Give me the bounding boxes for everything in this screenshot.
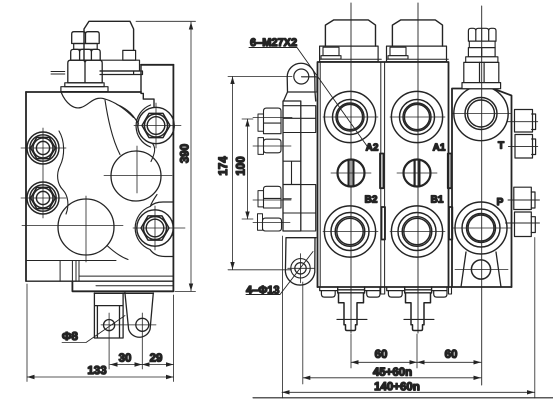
- hex nut A (top): [72, 32, 100, 44]
- svg-text:A2: A2: [366, 142, 379, 153]
- second S-curve: [117, 105, 139, 125]
- boss2 upper-left hex boss: [27, 132, 59, 164]
- bracket bottom lug counterbore: [291, 259, 310, 278]
- svg-text:30: 30: [119, 352, 132, 364]
- bracket bottom lug hole: [295, 263, 306, 274]
- body right edge: [172, 65, 174, 291]
- side lines left of nut stack: [51, 72, 65, 75]
- circle A neck curves: [105, 100, 155, 162]
- bracket bolt 2: [264, 139, 282, 153]
- circle B tail curve: [107, 246, 128, 260]
- body top edge: [26, 91, 141, 93]
- end section outline: [452, 89, 512, 288]
- dim 140+60n extensions: [283, 236, 535, 398]
- body hump scallop: [61, 92, 104, 108]
- dim 174 extensions: [228, 77, 292, 270]
- section1 gasket strip: [338, 287, 365, 293]
- dim 390 line: [189, 22, 193, 291]
- bracket rail: [283, 101, 301, 231]
- right plug upper block2: [515, 135, 533, 159]
- bracket top lug hole: [294, 69, 309, 84]
- cap base plates: [320, 58, 448, 60]
- boss A1 centerline: [390, 116, 445, 118]
- plug lower tips: [531, 192, 535, 233]
- svg-text:P: P: [497, 197, 504, 208]
- bracket middle box: [283, 161, 301, 199]
- boss B1 centerline: [390, 231, 445, 233]
- circle B centerlines: [22, 196, 123, 262]
- cap flange: [100, 60, 140, 71]
- section divider: [381, 62, 385, 287]
- boss A2: [324, 91, 375, 142]
- body outline sections 1-2: [318, 62, 449, 287]
- boss B1: [391, 206, 442, 257]
- divider slot lower: [382, 207, 386, 240]
- spool bore circle B: [58, 199, 114, 255]
- dim 45+60n line: [303, 376, 481, 380]
- rear block left edge with steps: [141, 65, 154, 107]
- boss T: [454, 86, 508, 140]
- bolt3 centerline: [253, 199, 291, 201]
- left foot hole: [104, 320, 115, 331]
- cap side box: [123, 50, 136, 60]
- boss B2 centerline: [323, 231, 378, 233]
- svg-text:T: T: [498, 140, 504, 151]
- joint2 base strip: [449, 287, 452, 294]
- joint2 slot lower: [449, 207, 452, 240]
- top cap: [84, 21, 134, 60]
- bracket bolt 4: [263, 218, 282, 231]
- dim 60 first line: [351, 360, 417, 364]
- boss T centerline: [453, 113, 511, 115]
- section centerline 1: [350, 3, 352, 333]
- pilot circle2 centerline: [397, 172, 437, 174]
- right plug lower block2: [515, 212, 532, 237]
- svg-text:A1: A1: [433, 142, 446, 153]
- boss4 casting arc: [135, 202, 173, 257]
- relief base plate: [462, 83, 501, 89]
- circle A centerlines: [104, 146, 172, 193]
- dim 100 line: [245, 119, 249, 219]
- svg-text:45+60n: 45+60n: [373, 367, 412, 379]
- bolt4 centerline: [253, 221, 290, 223]
- boss1 centerlines: [134, 103, 181, 148]
- relief neck washer: [469, 41, 495, 47]
- tongue hole: [471, 260, 490, 279]
- cap lower plate: [100, 71, 143, 75]
- boss1 casting arc: [136, 105, 150, 147]
- end section centerline over stack: [481, 28, 483, 88]
- svg-text:140+60n: 140+60n: [374, 381, 420, 393]
- right plug upper block1: [515, 110, 533, 133]
- relief body block: [464, 62, 499, 82]
- svg-text:390: 390: [180, 144, 192, 163]
- svg-text:174: 174: [218, 156, 230, 176]
- section2 stem cross: [404, 318, 434, 320]
- boss P: [455, 202, 507, 254]
- left foot: [94, 293, 123, 338]
- body internal shelf: [26, 261, 173, 282]
- feet hole centerline: [101, 313, 156, 369]
- dim 60 extensions: [351, 334, 417, 368]
- relief valve hex nut top: [468, 28, 496, 41]
- dim 174 line: [230, 77, 234, 270]
- body bottom-left step: [26, 280, 173, 282]
- note Phi8 leader: [62, 316, 125, 343]
- nut washer: [65, 83, 104, 87]
- right plug lower block1: [514, 187, 532, 209]
- section1 base left block: [320, 287, 337, 297]
- boss3 centerline: [21, 197, 66, 199]
- boss B2: [324, 206, 375, 257]
- dim 390 extension top: [136, 20, 196, 22]
- section2 gasket strip: [405, 287, 432, 293]
- bracket bolt 1: [264, 108, 282, 134]
- boss4 centerlines: [133, 206, 185, 250]
- tongue hole centerline: [455, 269, 508, 271]
- body bottom line: [72, 281, 173, 291]
- end section centerline: [481, 6, 483, 385]
- spool bore circle A: [111, 151, 161, 201]
- pilot circle section1: [338, 160, 365, 187]
- nut base flange: [61, 87, 108, 92]
- section1 stem: [339, 293, 364, 331]
- bolt2 washer: [258, 138, 264, 155]
- bolt1 washer: [258, 114, 264, 131]
- joint2 slot upper: [448, 154, 452, 189]
- body inner bottom line: [96, 285, 173, 287]
- section2 base right block: [432, 287, 447, 297]
- body left edge inner line: [319, 62, 321, 287]
- svg-text:Φ8: Φ8: [62, 331, 78, 343]
- boss3 lower-left hex boss: [27, 182, 59, 214]
- end section bottom tongue: [461, 252, 501, 287]
- bracket upper block: [283, 106, 316, 133]
- dim 133 line: [27, 375, 174, 379]
- boss A2 centerline: [323, 116, 378, 118]
- top lug side box: [302, 77, 317, 92]
- bottom lug centerlines: [288, 254, 315, 283]
- dim 60 second line: [417, 360, 481, 364]
- dim 390 extension bottom: [175, 291, 196, 293]
- cap1 small boss: [323, 47, 339, 56]
- svg-text:133: 133: [87, 365, 106, 377]
- plug upper tips: [532, 114, 536, 155]
- cap2 step box: [387, 46, 447, 62]
- divider slot upper: [380, 154, 383, 189]
- nut A neck: [74, 44, 98, 50]
- svg-text:60: 60: [375, 349, 388, 361]
- bracket top lug: [284, 63, 316, 101]
- note 6-M27X2 underline+leader: [249, 48, 367, 147]
- section1 stem cross: [337, 318, 367, 320]
- dim 140+60n line: [282, 390, 535, 394]
- bolt2 centerline: [253, 145, 291, 147]
- section2 base left block: [387, 287, 404, 297]
- cap2 small boss step: [388, 56, 408, 59]
- section centerline 2: [417, 3, 419, 333]
- svg-text:B1: B1: [431, 194, 444, 205]
- hex nut B: [71, 49, 101, 60]
- pilot circle1 centerline: [331, 172, 371, 174]
- section2 stem: [406, 293, 431, 331]
- boss A1: [391, 91, 442, 142]
- hump S-curve to boss1: [104, 99, 134, 118]
- cap1 small boss step: [321, 56, 341, 59]
- plug upper centerlines: [507, 122, 538, 147]
- left wavy casting line: [58, 131, 68, 214]
- cap section1: [325, 20, 375, 46]
- bracket bottom lug: [285, 238, 316, 285]
- body bottom edge: [318, 286, 512, 288]
- boss P centerline: [453, 227, 511, 229]
- sheet border bottom line: [253, 397, 553, 399]
- svg-text:29: 29: [150, 352, 163, 364]
- bolt1 centerline: [253, 116, 292, 118]
- dim 45+60n extension: [302, 282, 304, 384]
- dim 29 line: [142, 362, 174, 366]
- bracket bolt 3: [264, 186, 282, 208]
- note 4-Phi13 leader: [246, 252, 313, 295]
- bolt3 washer: [258, 191, 264, 207]
- boss2 centerlines: [21, 128, 66, 218]
- body outline left edge: [25, 92, 27, 281]
- svg-text:100: 100: [236, 156, 248, 175]
- right foot clevis: [125, 292, 153, 337]
- cap1 step box: [320, 46, 379, 62]
- dim 133 extensions: [27, 284, 174, 382]
- cap section2: [392, 20, 442, 46]
- svg-text:60: 60: [445, 349, 458, 361]
- right foot hole: [136, 318, 149, 331]
- plug lower centerlines: [506, 200, 540, 223]
- dim 100 extensions: [242, 119, 253, 219]
- bracket lower block: [283, 185, 316, 231]
- rear block top: [141, 64, 173, 66]
- boss4 lower-right hex boss: [137, 210, 173, 246]
- hex nut C (locknut): [68, 60, 102, 83]
- cap2 small boss: [390, 47, 406, 56]
- dim 30 line: [110, 362, 142, 366]
- bolt4 washer: [258, 214, 263, 230]
- boss1 upper-right hex boss: [138, 107, 174, 143]
- relief washer 2: [466, 57, 498, 63]
- svg-text:B2: B2: [365, 194, 378, 205]
- feet top plate line: [94, 292, 153, 294]
- circle A to boss4 connector: [150, 195, 157, 207]
- joint1 base strip: [381, 287, 385, 294]
- pilot circle section2: [404, 160, 431, 187]
- section1 base right block: [365, 287, 380, 297]
- relief hex nut 2: [468, 48, 495, 57]
